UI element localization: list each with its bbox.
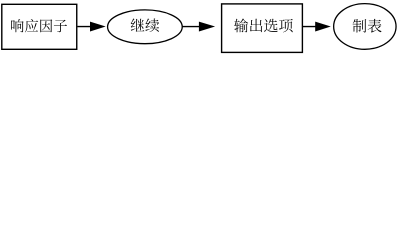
node ellipse 继续 (108, 10, 183, 44)
label 制表 (353, 19, 382, 33)
node ellipse 制表 (334, 4, 396, 50)
wire edge A3 shaft (303, 26, 316, 28)
wire edge A1 shaft (78, 26, 91, 28)
node box 响应因子 (2, 4, 77, 49)
node box 输出选项 (222, 4, 303, 53)
label 输出选项 (234, 19, 293, 33)
label 响应因子 (11, 19, 67, 32)
arrowhead A2 (199, 22, 215, 32)
label 继续 (131, 19, 159, 32)
wire edge A2 shaft (182, 26, 199, 28)
arrowhead A3 (315, 22, 331, 32)
arrowhead A1 (90, 22, 106, 32)
